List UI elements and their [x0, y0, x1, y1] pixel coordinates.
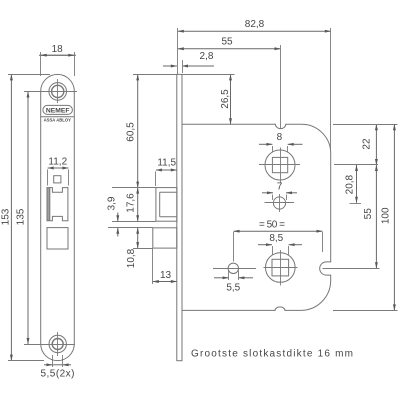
- lock case outline: [182, 124, 331, 310]
- svg-text:13: 13: [160, 270, 172, 281]
- dim 5,5(2x): [44, 355, 71, 367]
- dim 55 top: [178, 45, 281, 129]
- svg-text:82,8: 82,8: [245, 19, 265, 30]
- hole 7mm: [273, 197, 285, 209]
- svg-text:10,8: 10,8: [126, 248, 137, 268]
- bottom screw crosshair: [24, 332, 75, 356]
- follower 1 (spindle hole 8mm): [265, 150, 295, 180]
- svg-text:= 50 =: = 50 =: [259, 219, 285, 230]
- svg-text:5,5: 5,5: [226, 283, 240, 294]
- deadbolt side view: [153, 228, 177, 248]
- faceplate side view strip: [177, 74, 182, 360]
- svg-text:17,6: 17,6: [125, 193, 136, 213]
- svg-text:153: 153: [0, 208, 11, 225]
- dim 3,9: [117, 213, 119, 237]
- svg-text:11,2: 11,2: [48, 156, 67, 167]
- dim =50=: [234, 231, 323, 261]
- svg-text:100: 100: [381, 207, 392, 224]
- dim 8,5: [258, 245, 302, 255]
- svg-text:3,9: 3,9: [106, 196, 117, 210]
- svg-text:11,5: 11,5: [157, 158, 176, 169]
- svg-text:Grootste slotkastdikte 16 mm: Grootste slotkastdikte 16 mm: [191, 349, 353, 360]
- hole 5,5 crosshair: [213, 268, 256, 270]
- dim 7: [262, 193, 297, 200]
- latch bolt side view: [156, 188, 177, 222]
- dim 11,2: [48, 168, 69, 186]
- dim 8: [259, 144, 303, 152]
- dim 13: [153, 248, 177, 284]
- dim 11,5: [156, 170, 177, 186]
- follower 1 crosshair: [259, 148, 300, 184]
- dim 26,5: [182, 74, 235, 124]
- dim 22: [333, 124, 398, 165]
- svg-text:18: 18: [52, 44, 64, 55]
- follower 2 (8.5mm): [266, 253, 296, 283]
- hole 7 crosshair: [265, 194, 295, 212]
- dim 5,5: [214, 271, 253, 281]
- latch bolt front view: [47, 188, 68, 221]
- follower 2 crosshair: [264, 250, 298, 286]
- svg-text:5,5(2x): 5,5(2x): [41, 369, 75, 380]
- svg-text:2,8: 2,8: [200, 51, 214, 62]
- svg-text:55: 55: [363, 208, 374, 220]
- faceplate seam line: [41, 116, 75, 118]
- svg-text:8: 8: [277, 132, 283, 143]
- hole 5,5: [228, 263, 238, 273]
- dim 18: [39, 52, 76, 76]
- dim 20,8: [350, 165, 362, 204]
- dim 82,8: [178, 28, 331, 150]
- svg-text:8,5: 8,5: [269, 233, 283, 244]
- svg-text:20,8: 20,8: [345, 174, 356, 194]
- svg-text:7: 7: [277, 181, 283, 192]
- dim 60,5: [133, 74, 177, 187]
- bottom screw hole: [49, 335, 66, 352]
- dim 135: [27, 92, 29, 345]
- svg-text:22: 22: [362, 138, 373, 150]
- svg-text:60,5: 60,5: [126, 122, 137, 142]
- dim 2,8: [163, 60, 214, 73]
- svg-text:135: 135: [15, 208, 26, 225]
- dim 17,6: [112, 188, 156, 222]
- dim 153: [8, 74, 50, 360]
- NEMEF logo oval: [43, 105, 73, 114]
- dim 55 right: [323, 165, 380, 269]
- faceplate front view outline: [41, 74, 75, 360]
- small square hole: [54, 176, 61, 183]
- svg-text:55: 55: [221, 36, 233, 47]
- top screw hole: [49, 83, 67, 101]
- deadbolt square hole: [47, 228, 68, 249]
- dim 10,8: [108, 228, 153, 249]
- dim 100: [333, 124, 398, 310]
- svg-text:ASSA ABLOY: ASSA ABLOY: [44, 118, 72, 123]
- svg-text:26,5: 26,5: [220, 89, 231, 109]
- top screw crosshair: [24, 79, 77, 103]
- svg-text:NEMEF: NEMEF: [46, 108, 70, 115]
